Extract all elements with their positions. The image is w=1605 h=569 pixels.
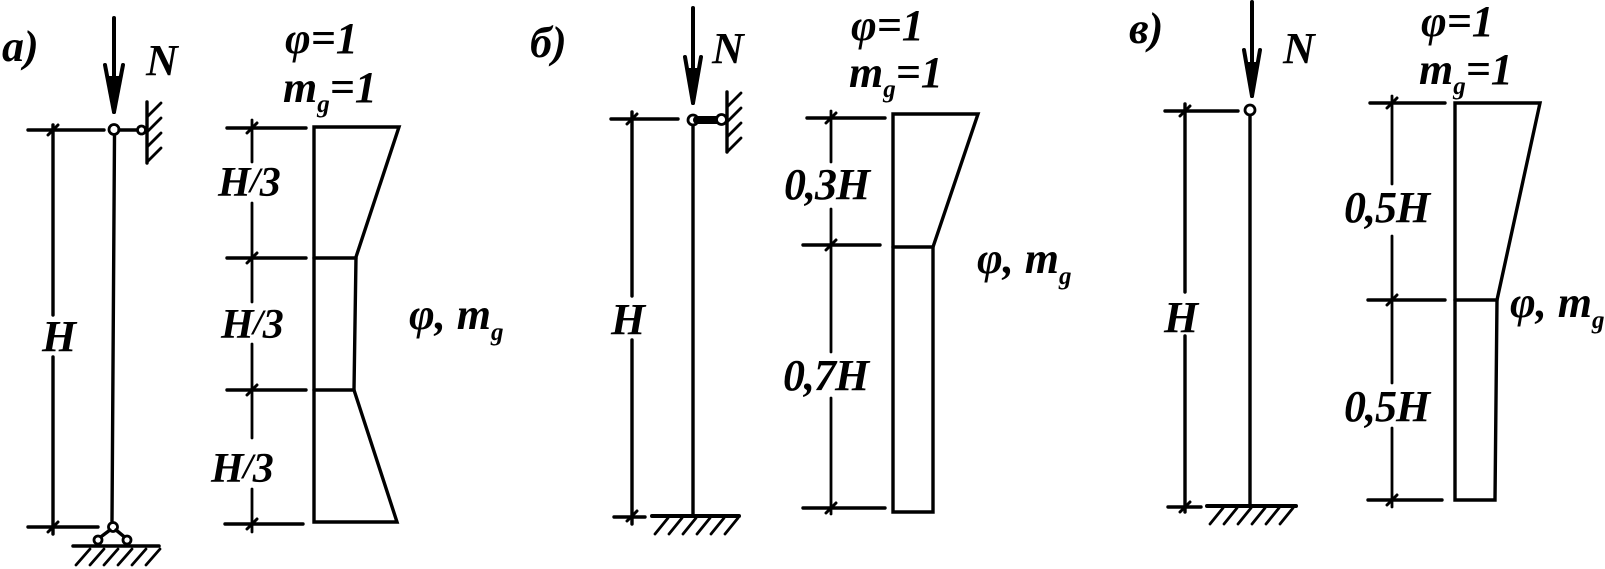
top extension line of dimension H (a) (28, 128, 104, 131)
svg-text:N: N (1282, 24, 1317, 73)
dimension ticks of diagram a (225, 128, 306, 524)
top extension line of dimension H (b) (611, 117, 678, 120)
load arrow N of column b (685, 8, 701, 103)
dimension line of diagram v (1391, 96, 1394, 507)
division line at 0.3H (b) (893, 245, 933, 248)
svg-text:H/3: H/3 (210, 446, 273, 492)
ground hatching (b) (655, 518, 738, 534)
bottom extension line of dimension H (a) (28, 525, 98, 528)
svg-text:а): а) (2, 22, 39, 71)
dimension line H (b) (630, 112, 633, 524)
dimension slash ticks (48, 98, 1397, 532)
svg-text:0,5H: 0,5H (1344, 183, 1432, 232)
left roller circle of pin support (a) (94, 536, 102, 544)
link to wall roller (a) (119, 128, 137, 131)
top hinge circle of column a (109, 125, 119, 135)
ground line of fixed support (b) (652, 514, 739, 518)
bottom pin circle of column a (109, 523, 118, 532)
svg-text:φ, mg: φ, mg (1510, 278, 1604, 334)
phi diagram outline (a) (314, 127, 399, 522)
svg-text:N: N (711, 24, 746, 73)
svg-text:φ, mg: φ, mg (977, 234, 1071, 290)
svg-text:H: H (41, 312, 78, 361)
top hinge circle of column b (688, 115, 698, 125)
svg-text:б): б) (530, 18, 567, 67)
column a (112, 135, 115, 521)
svg-text:φ=1: φ=1 (285, 14, 358, 63)
svg-text:mg=1: mg=1 (283, 63, 377, 118)
ground hatching (v) (1210, 508, 1293, 524)
bottom extension tick of dimension H (v) (1168, 505, 1201, 508)
svg-text:φ=1: φ=1 (851, 1, 924, 50)
pin support triangle legs (a) (98, 530, 127, 539)
ground line under pin support (a) (73, 544, 159, 548)
dimension line H (v) (1183, 104, 1186, 512)
column v (1248, 115, 1251, 504)
svg-text:H/3: H/3 (220, 302, 283, 348)
link to wall roller (b) (697, 116, 718, 124)
dimension ticks of diagram b (803, 118, 885, 508)
division line at 0.5H (v) (1455, 298, 1497, 301)
svg-text:0,3H: 0,3H (784, 160, 872, 209)
svg-text:N: N (145, 36, 180, 85)
dimension line of diagram a (251, 120, 254, 532)
wall line of top support (b) (725, 92, 728, 152)
roller circle at wall (a) (138, 126, 146, 134)
load arrow N of column a (105, 18, 123, 112)
svg-text:H/3: H/3 (217, 160, 280, 206)
dimension line H (a) (51, 125, 54, 534)
division line at 2H/3 (a) (314, 388, 354, 391)
wall hatching of top support (b) (727, 93, 741, 152)
svg-text:H: H (1163, 293, 1200, 342)
dimension ticks of diagram v (1368, 103, 1445, 500)
bottom extension tick of dimension H (b) (614, 515, 645, 518)
column b (691, 125, 694, 514)
svg-text:в): в) (1129, 4, 1163, 53)
right roller circle of pin support (a) (123, 536, 131, 544)
svg-text:0,5H: 0,5H (1344, 382, 1432, 431)
svg-text:φ=1: φ=1 (1421, 0, 1494, 46)
top hinge circle of column v (1245, 105, 1255, 115)
svg-text:φ, mg: φ, mg (409, 290, 503, 346)
load arrow N of column v (1244, 2, 1260, 96)
division line at H/3 (a) (314, 256, 356, 259)
dimension line of diagram b (830, 111, 833, 514)
ground line of fixed support (v) (1207, 504, 1296, 508)
ground hatching (a) (76, 549, 160, 565)
wall line of top support (a) (145, 102, 148, 163)
svg-text:0,7H: 0,7H (783, 351, 871, 400)
svg-text:H: H (610, 295, 647, 344)
phi diagram outline (v) (1455, 103, 1540, 500)
roller circle at wall (b) (717, 115, 727, 125)
top extension line of dimension H (v) (1165, 109, 1238, 112)
wall hatching of top support (a) (147, 103, 161, 162)
svg-text:mg=1: mg=1 (849, 48, 943, 103)
phi diagram outline (b) (893, 114, 978, 512)
svg-text:mg=1: mg=1 (1419, 45, 1513, 100)
